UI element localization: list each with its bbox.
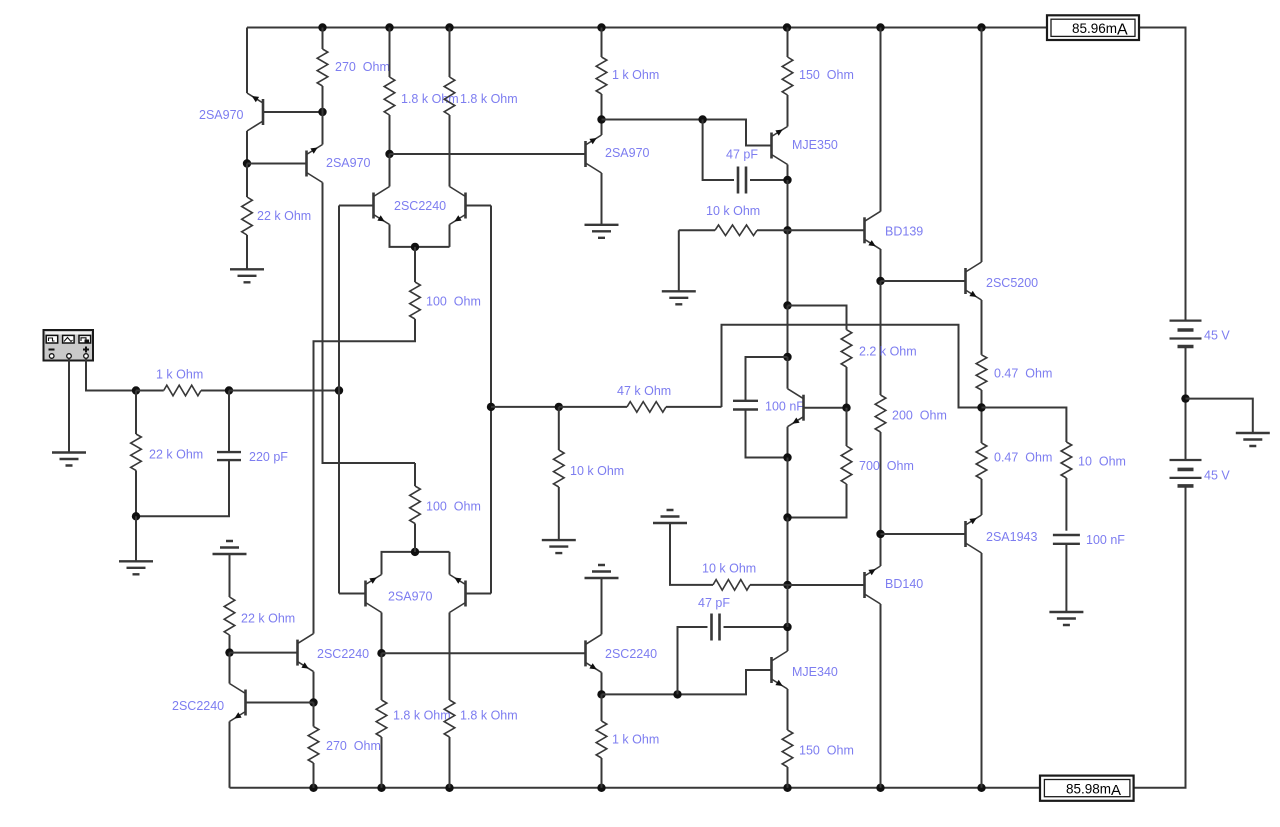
resistor R1 1 k Ohm (series input) xyxy=(164,385,201,396)
wire bottom 270 top lead xyxy=(313,703,315,727)
resistor R4 22 k Ohm (top-left) xyxy=(242,197,253,235)
wire top +45V supply rail xyxy=(247,27,1046,29)
svg-text:A: A xyxy=(1117,22,1128,39)
svg-text:270 Ohm: 270 Ohm xyxy=(326,739,381,753)
wire main column 305-357 xyxy=(787,306,789,358)
wire VAS out to MJE350 base xyxy=(602,120,772,146)
wire main column 230-305 xyxy=(787,230,789,305)
wire bottom 270 bottom lead xyxy=(313,763,315,788)
wire BD139 collector up to rail xyxy=(880,28,882,212)
svg-text:10 k Ohm: 10 k Ohm xyxy=(702,562,756,576)
wire driver to 2SC5200 base xyxy=(881,280,966,282)
wire left collector up xyxy=(389,154,391,187)
svg-text:1.8 k Ohm: 1.8 k Ohm xyxy=(393,709,451,723)
node bottom Q2 base node xyxy=(309,698,317,706)
node bottom rail junction at 1k xyxy=(597,784,605,792)
wire MJE350 collector down xyxy=(787,165,789,181)
wire bottom VAS drive wire xyxy=(382,652,586,654)
wire Vbe mult base xyxy=(804,407,847,409)
node top rail junction at 2SC5200 collector xyxy=(977,23,985,31)
resistor R21 150 Ohm (bottom) xyxy=(782,730,793,767)
wire battery mid link xyxy=(1185,347,1187,461)
wire 2SA1943 collector down to rail xyxy=(981,553,983,788)
node VAS output node xyxy=(597,115,605,123)
svg-text:10 k Ohm: 10 k Ohm xyxy=(706,204,760,218)
svg-text:150 Ohm: 150 Ohm xyxy=(799,68,854,82)
resistor R18 0.47 Ohm (bottom) xyxy=(976,443,987,479)
svg-text:BD139: BD139 xyxy=(885,225,923,239)
node input node at 220pF xyxy=(225,386,233,394)
svg-text:700 Ohm: 700 Ohm xyxy=(859,459,914,473)
svg-text:1.8 k Ohm: 1.8 k Ohm xyxy=(401,92,459,106)
node bottom rail junction at 1.8k #1 xyxy=(377,784,385,792)
wire 47pF top left lead xyxy=(703,120,734,181)
node BD140 base node xyxy=(783,581,791,589)
wire zobel cap to ground xyxy=(1065,544,1067,612)
resistor R2 22 k Ohm (input shunt) xyxy=(131,434,142,470)
wire 700 bottom lead xyxy=(788,484,847,518)
wire 220pF top lead xyxy=(228,391,230,453)
transistor Q5 2SA970 (top VAS) xyxy=(584,141,587,167)
wire battery stack top lead xyxy=(1185,320,1187,322)
ground 10k top xyxy=(662,291,696,304)
capacitor C5 47 pF (bottom) xyxy=(712,614,720,641)
svg-text:47 pF: 47 pF xyxy=(726,148,758,162)
node bottom rail junction at 2SA1943 collector xyxy=(977,784,985,792)
wire 270 bottom lead xyxy=(322,86,324,112)
node 10k/47k junction xyxy=(555,403,563,411)
wire 22k(top-left) top lead xyxy=(246,164,248,198)
wire feedback node to 10k xyxy=(491,406,559,408)
battery B1 45V xyxy=(1170,321,1202,339)
wire main column 585-627 xyxy=(787,585,789,627)
wire bottom 1k top lead xyxy=(601,694,603,721)
transistor Q12 2SC2240 (bottom VAS) xyxy=(584,640,587,666)
ground at generator xyxy=(52,453,86,466)
wire 47pF top right lead xyxy=(750,179,788,181)
node top rail junction at 1k xyxy=(597,23,605,31)
wire fb 10k top lead xyxy=(558,407,560,450)
wire right emitter to junction xyxy=(449,225,451,247)
wire bottom left collector down xyxy=(381,613,383,654)
svg-text:2SA970: 2SA970 xyxy=(605,146,650,160)
svg-text:47 pF: 47 pF xyxy=(698,596,730,610)
svg-text:2SA970: 2SA970 xyxy=(199,108,244,122)
transistor Q8 2SC5200 xyxy=(964,268,967,294)
svg-text:2SA970: 2SA970 xyxy=(326,156,371,170)
transistor Q10 BD140 xyxy=(863,572,866,598)
wire main column 180-230 xyxy=(787,180,789,230)
battery B2 45V xyxy=(1170,460,1202,478)
wire bottom cascode base wire xyxy=(230,652,298,654)
ground top-left bias xyxy=(230,269,264,282)
wire generator minus terminal to ground xyxy=(68,359,70,452)
svg-text:BD140: BD140 xyxy=(885,577,923,591)
svg-text:2SC2240: 2SC2240 xyxy=(605,647,657,661)
node bottom rail junction at 1.8k #2 xyxy=(445,784,453,792)
wire shunt node to ground xyxy=(135,516,137,561)
transistor Q14 2SC2240 (bottom cascode) xyxy=(296,640,299,666)
wire VAS drive to 2SA970 VAS base xyxy=(390,153,586,155)
wire BD139 emitter node to 200 Ohm xyxy=(880,281,882,395)
wire VAS emitter up xyxy=(601,120,603,136)
wire main column 517-585 xyxy=(787,518,789,586)
node 700 bottom node xyxy=(783,513,791,521)
node VAS drive node xyxy=(385,150,393,158)
svg-text:45 V: 45 V xyxy=(1204,329,1230,343)
svg-text:10 k Ohm: 10 k Ohm xyxy=(570,464,624,478)
wire b1.8k#1 bottom lead xyxy=(381,737,383,788)
node bottom rail junction at BD140 collector xyxy=(876,784,884,792)
wire BD140 emitter up xyxy=(880,534,882,566)
resistor R5 1.8 k Ohm (top #1) xyxy=(384,77,395,115)
node top rail junction at 1.8k #1 xyxy=(385,23,393,31)
wire Q15 collector up to base node xyxy=(229,653,231,684)
svg-text:1.8 k Ohm: 1.8 k Ohm xyxy=(460,92,518,106)
wire generator plus terminal to input node xyxy=(86,359,136,391)
wire bottom VAS out to MJE340 base xyxy=(602,670,772,694)
resistor R8 1 k Ohm (top) xyxy=(596,57,607,94)
node supply midpoint xyxy=(1181,394,1189,402)
node 2.2k branch node xyxy=(783,301,791,309)
svg-text:A: A xyxy=(1111,782,1121,799)
resistor R9 150 Ohm (top) xyxy=(782,57,793,95)
wire 200 bottom lead xyxy=(880,432,882,534)
wire main column 457-517 xyxy=(787,458,789,518)
svg-text:2SA1943: 2SA1943 xyxy=(986,530,1037,544)
capacitor C1 220 pF xyxy=(217,452,241,460)
wire bottom -45V supply rail xyxy=(230,787,1042,789)
wire rail left end down to Q1 emitter xyxy=(246,28,248,94)
wire 1k bottom lead xyxy=(601,94,603,120)
resistor R20 1 k Ohm (bottom) xyxy=(596,721,607,758)
wire bottom rail ammeter to right corner xyxy=(1134,487,1186,788)
ammeter AM1 85.96mA xyxy=(1047,15,1139,40)
node bottom rail junction at 270 Ohm xyxy=(309,784,317,792)
node feedback node xyxy=(487,403,495,411)
wire input node to pair bases xyxy=(229,390,339,392)
wire input res right lead xyxy=(201,390,229,392)
wire 47pF bottom right lead xyxy=(724,626,788,628)
svg-text:200 Ohm: 200 Ohm xyxy=(892,409,947,423)
resistor R16 10 k Ohm (feedback) xyxy=(554,450,565,487)
svg-text:22 k Ohm: 22 k Ohm xyxy=(257,209,311,223)
node input divider left xyxy=(132,386,140,394)
wire left base bus xyxy=(339,205,374,207)
transistor Q11 2SA1943 xyxy=(964,521,967,547)
wire 2.2k branch xyxy=(788,306,847,330)
transistor Q15 2SC2240 (bottom-left) xyxy=(244,690,247,716)
svg-text:22 k Ohm: 22 k Ohm xyxy=(149,448,203,462)
wire 10k right lead xyxy=(757,229,788,231)
svg-text:100 nF: 100 nF xyxy=(1086,533,1125,547)
wire bottom right emitter up xyxy=(449,552,451,575)
wire 1.8k#1 top lead xyxy=(389,28,391,78)
wire zobel mid lead xyxy=(1065,478,1067,531)
svg-text:100 Ohm: 100 Ohm xyxy=(426,295,481,309)
svg-text:47 k Ohm: 47 k Ohm xyxy=(617,384,671,398)
svg-text:1.8 k Ohm: 1.8 k Ohm xyxy=(460,709,518,723)
wire 47k left lead xyxy=(559,406,627,408)
wire 1.8k#1 bottom lead xyxy=(389,115,391,154)
svg-text:2SC2240: 2SC2240 xyxy=(172,699,224,713)
svg-text:100 Ohm: 100 Ohm xyxy=(426,500,481,514)
svg-text:2SC5200: 2SC5200 xyxy=(986,276,1038,290)
node BD139 base node xyxy=(783,226,791,234)
wire right base bus xyxy=(466,205,492,207)
wire MJE340 emitter down xyxy=(787,689,789,730)
wire 1.8k#2 top lead xyxy=(449,28,451,78)
transistor Q6 MJE350 xyxy=(770,133,773,159)
node top rail junction at BD139 collector xyxy=(876,23,884,31)
wire bottom 1k bottom lead xyxy=(601,758,603,788)
wire Q15 emitter down to rail xyxy=(229,722,231,788)
wire 10k top left lead xyxy=(679,229,715,231)
resistor R22 22 k Ohm (bottom-left) xyxy=(224,597,235,635)
wire midpoint to ground xyxy=(1186,399,1253,433)
wire bottom 22k bottom lead xyxy=(229,635,231,653)
wire Q1 collector down xyxy=(246,131,248,164)
wire BD139 base wire xyxy=(788,229,865,231)
node Q1 base / 270 Ohm xyxy=(318,108,326,116)
wire bottom cascode emitter down xyxy=(313,672,315,703)
transistor Q1 2SA970 (top-left) xyxy=(262,99,265,125)
resistor R7 100 Ohm (top) xyxy=(410,282,421,319)
wire bottom 10k ground lead xyxy=(670,523,713,585)
wire 270 top lead xyxy=(322,28,324,50)
wire 100#1 top lead xyxy=(414,247,416,282)
wire 2.2k bottom lead xyxy=(846,367,848,408)
wire 100#2 bottom lead xyxy=(414,524,416,552)
resistor R17 10 k Ohm (bottom) xyxy=(713,580,750,591)
wire VAS collector to ground xyxy=(601,173,603,225)
iground 10k bottom xyxy=(653,510,687,523)
wire bottom Q15 base wire xyxy=(246,702,314,704)
node top rail junction at 1.8k #2 xyxy=(445,23,453,31)
wire bottom left base xyxy=(339,593,366,595)
svg-text:1 k Ohm: 1 k Ohm xyxy=(612,733,659,747)
wire left emitter to junction xyxy=(390,225,450,247)
wire bottom cascode collector up xyxy=(313,633,315,635)
wire b1.8k#1 top lead xyxy=(381,653,383,700)
wire BD140 collector down to rail xyxy=(880,604,882,788)
wire bottom left emitter up xyxy=(382,552,450,575)
wire bottom VAS collector xyxy=(601,578,603,634)
node top rail junction at 150 Ohm xyxy=(783,23,791,31)
wire feedback vertical to both right bases xyxy=(490,206,492,594)
transistor Q17 2SA970 (bottom pair right) xyxy=(464,581,467,607)
node bottom cascode base node xyxy=(225,648,233,656)
ammeter AM2 85.98mA xyxy=(1040,776,1134,801)
transistor Q9 Vbe multiplier (2SC2240) xyxy=(802,395,805,421)
svg-text:MJE340: MJE340 xyxy=(792,665,838,679)
svg-text:85.96m: 85.96m xyxy=(1072,21,1117,36)
signal generator VG1 xyxy=(44,330,94,361)
resistor R25 1.8 k Ohm (bottom #1) xyxy=(376,700,387,737)
wire 100#2 top lead xyxy=(414,463,416,486)
svg-text:1 k Ohm: 1 k Ohm xyxy=(156,368,203,382)
svg-text:2SC2240: 2SC2240 xyxy=(394,199,446,213)
svg-text:22 k Ohm: 22 k Ohm xyxy=(241,612,295,626)
wire 47pF bottom left lead xyxy=(678,627,708,694)
wire Q2 collector down to 100 Ohm #2 corner xyxy=(323,183,416,464)
wire 100nF top lead xyxy=(746,357,788,401)
svg-text:85.98m: 85.98m xyxy=(1066,781,1111,796)
resistor R26 1.8 k Ohm (bottom #2) xyxy=(444,700,455,737)
wire 1k top lead xyxy=(601,28,603,58)
node BD139 emitter node xyxy=(876,277,884,285)
resistor R12 2.2 k Ohm xyxy=(841,330,852,367)
svg-text:2SA970: 2SA970 xyxy=(388,590,433,604)
wire feedback long horizontal xyxy=(722,325,982,408)
wire 100#1 bottom lead to left column xyxy=(314,319,416,634)
node top pair emitter junction xyxy=(411,243,419,251)
wire bottom VAS emitter down xyxy=(601,672,603,694)
wire output to zobel xyxy=(982,408,1067,443)
wire MJE350 emitter up xyxy=(787,95,789,127)
wire BD139 emitter down xyxy=(880,249,882,281)
node bottom rail junction at 150 Ohm xyxy=(783,784,791,792)
wire 0.47#2 top lead xyxy=(981,408,983,444)
wire Q1 base to 270 node xyxy=(263,111,323,113)
wire top rail ammeter to right corner xyxy=(1139,28,1186,321)
resistor R23 270 Ohm (bottom) xyxy=(308,727,319,764)
node BD140 emitter node xyxy=(876,530,884,538)
resistor R3 270 Ohm (top) xyxy=(317,49,328,86)
wire Vbe mult collector xyxy=(787,357,789,389)
resistor R6 1.8 k Ohm (top #2) xyxy=(444,77,455,115)
wire 2SC5200 collector to rail xyxy=(981,28,983,263)
svg-text:100 nF: 100 nF xyxy=(765,400,804,414)
resistor R15 47 k Ohm xyxy=(627,402,666,413)
wire Q2 emitter up to 270 node xyxy=(322,112,324,145)
transistor Q13 MJE340 xyxy=(770,657,773,683)
resistor R24 100 Ohm (bottom) xyxy=(410,486,421,524)
wire 2SA1943 emitter up xyxy=(981,479,983,515)
node input shunt bottom xyxy=(132,512,140,520)
svg-text:0.47 Ohm: 0.47 Ohm xyxy=(994,451,1052,465)
svg-text:2.2 k Ohm: 2.2 k Ohm xyxy=(859,345,917,359)
iground bottom VAS collector xyxy=(585,565,619,578)
wire MJE340 collector up xyxy=(787,627,789,651)
wire 22k(top-left) bottom lead xyxy=(246,235,248,269)
capacitor C2 47 pF (top) xyxy=(738,167,746,194)
wire Vbe mult emitter down xyxy=(787,427,789,458)
iground bottom-left 22k xyxy=(213,541,247,554)
node bottom 47pF tap xyxy=(673,690,681,698)
node input to base line xyxy=(335,386,343,394)
wire bottom right base xyxy=(466,593,492,595)
resistor R13 700 Ohm xyxy=(841,446,852,484)
wire driver to 2SA1943 base xyxy=(881,533,966,535)
wire bottom 150 lead xyxy=(787,767,789,788)
wire 2SC5200 emitter down xyxy=(981,300,983,355)
transistor Q2 2SA970 (top-left cascode) xyxy=(305,151,308,177)
svg-text:0.47 Ohm: 0.47 Ohm xyxy=(994,367,1052,381)
ground zobel xyxy=(1049,612,1083,625)
wire 1.8k#2 bottom lead / right collector xyxy=(449,115,451,187)
transistor Q3 2SC2240 (top pair left) xyxy=(372,193,375,219)
wire 22k top lead xyxy=(135,391,137,435)
node Q1 collector / Q2 base / 22k xyxy=(243,159,251,167)
wire BD140 base wire xyxy=(788,584,865,586)
node MJE340 collector node xyxy=(783,623,791,631)
node bottom VAS drive node xyxy=(377,649,385,657)
wire b1.8k#2 bottom lead xyxy=(449,737,451,788)
ground feedback divider xyxy=(542,540,576,553)
node top rail junction at 270 Ohm xyxy=(318,23,326,31)
resistor R10 10 k Ohm (top) xyxy=(715,225,757,236)
svg-text:45 V: 45 V xyxy=(1204,469,1230,483)
wire bottom 22k top lead xyxy=(229,554,231,597)
svg-text:1 k Ohm: 1 k Ohm xyxy=(612,68,659,82)
wire 10k left to ground xyxy=(678,230,680,291)
svg-text:2SC2240: 2SC2240 xyxy=(317,647,369,661)
node MJE350 collector node xyxy=(783,176,791,184)
node bottom pair emitter junction xyxy=(411,548,419,556)
wire bottom 10k right lead xyxy=(750,584,788,586)
wire 700 top lead xyxy=(846,408,848,446)
wire 0.47#1 bottom lead xyxy=(981,390,983,408)
wire 220pF bottom lead xyxy=(136,460,229,516)
wire bottom right collector down xyxy=(449,613,451,701)
transistor Q16 2SA970 (bottom pair left) xyxy=(364,581,367,607)
capacitor C3 100 nF (Vbe mult) xyxy=(733,401,758,410)
svg-text:150 Ohm: 150 Ohm xyxy=(799,744,854,758)
wire 47k right lead xyxy=(666,406,722,408)
resistor R19 10 Ohm (zobel) xyxy=(1061,442,1072,478)
transistor Q7 BD139 xyxy=(863,217,866,243)
node Vbe multiplier collector node xyxy=(783,353,791,361)
ground supply midpoint xyxy=(1236,433,1270,446)
resistor R11 0.47 Ohm (top) xyxy=(976,355,987,390)
svg-text:220 pF: 220 pF xyxy=(249,450,288,464)
wire 100nF bottom lead xyxy=(746,409,788,457)
svg-text:10 Ohm: 10 Ohm xyxy=(1078,455,1126,469)
svg-text:MJE350: MJE350 xyxy=(792,138,838,152)
capacitor C4 100 nF (zobel) xyxy=(1053,535,1080,544)
node Vbe mult base / divider xyxy=(842,404,850,412)
svg-text:270 Ohm: 270 Ohm xyxy=(335,60,390,74)
node output node xyxy=(977,403,985,411)
wire Q2 base from node xyxy=(247,163,307,165)
wire 150 top lead xyxy=(787,28,789,58)
wire fb 10k bottom lead xyxy=(558,487,560,540)
ground VAS top xyxy=(585,225,619,238)
resistor R14 200 Ohm xyxy=(875,395,886,432)
ground input network xyxy=(119,561,153,574)
transistor Q4 2SC2240 (top pair right) xyxy=(464,193,467,219)
node 47pF tap xyxy=(698,115,706,123)
wire 22k bottom lead xyxy=(135,470,137,516)
wire input vertical to both pair bases xyxy=(338,206,340,594)
node 100nF bottom node xyxy=(783,453,791,461)
node bottom VAS emitter node xyxy=(597,690,605,698)
wire input res left lead xyxy=(136,390,164,392)
